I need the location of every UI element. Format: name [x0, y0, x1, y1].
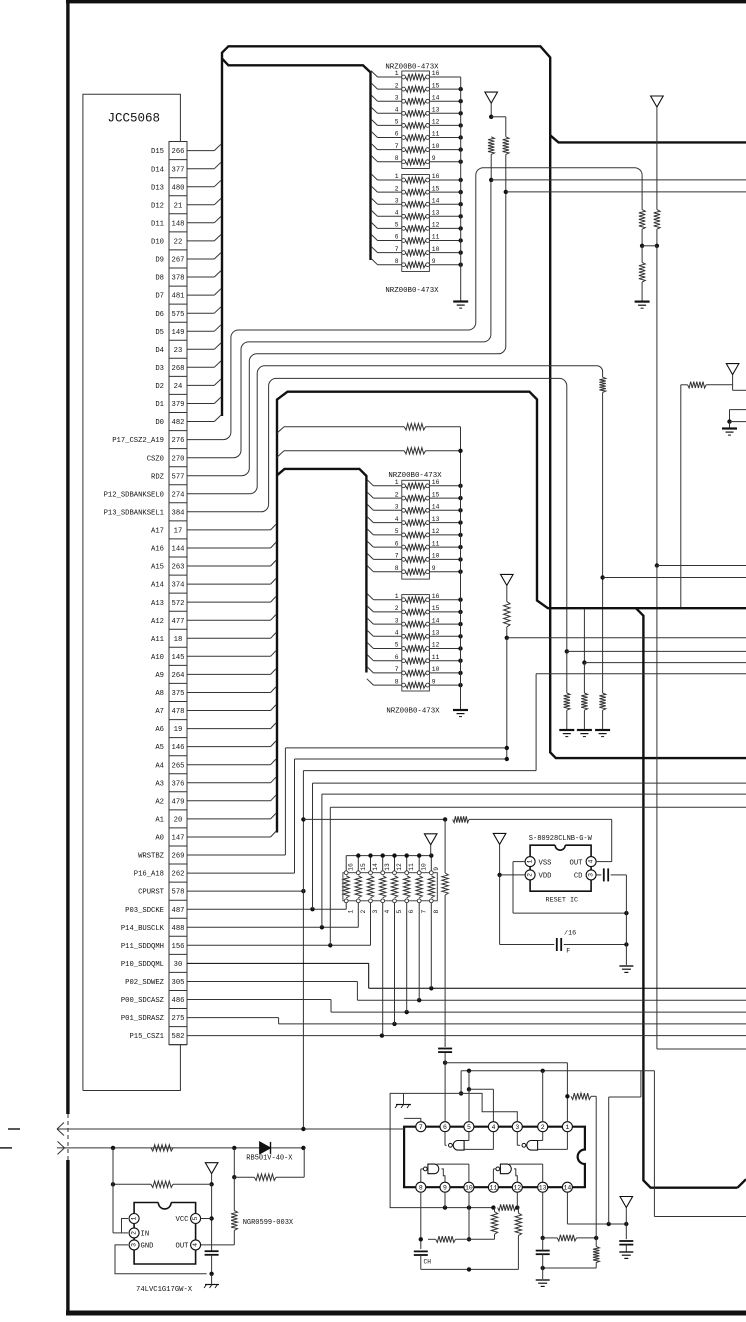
svg-text:16: 16 — [432, 593, 440, 600]
svg-text:1: 1 — [395, 593, 399, 600]
svg-text:D0: D0 — [155, 419, 164, 427]
svg-text:4: 4 — [395, 516, 399, 523]
svg-text:12: 12 — [432, 642, 440, 649]
svg-text:NRZ00B0-473X: NRZ00B0-473X — [385, 64, 439, 72]
svg-text:JCC5068: JCC5068 — [108, 112, 161, 126]
svg-text:269: 269 — [172, 853, 185, 861]
svg-text:14: 14 — [372, 863, 379, 871]
svg-text:2: 2 — [527, 873, 534, 877]
svg-text:265: 265 — [172, 762, 185, 770]
svg-text:14: 14 — [432, 197, 440, 204]
svg-text:NRZ00B0-473X: NRZ00B0-473X — [386, 707, 440, 715]
svg-text:4: 4 — [588, 860, 595, 864]
svg-text:D8: D8 — [155, 275, 164, 283]
svg-text:1: 1 — [348, 910, 355, 914]
svg-text:D9: D9 — [155, 257, 164, 265]
svg-text:6: 6 — [395, 540, 399, 547]
svg-text:/16: /16 — [564, 930, 576, 938]
svg-text:D2: D2 — [155, 383, 164, 391]
svg-text:4: 4 — [491, 1124, 495, 1131]
svg-text:477: 477 — [172, 618, 185, 626]
svg-text:146: 146 — [172, 744, 185, 752]
svg-text:5: 5 — [395, 119, 399, 126]
svg-text:488: 488 — [172, 925, 185, 933]
svg-text:RESET IC: RESET IC — [546, 897, 579, 905]
svg-text:13: 13 — [384, 863, 391, 871]
svg-text:147: 147 — [172, 835, 185, 843]
svg-text:5: 5 — [467, 1124, 471, 1131]
svg-text:VDD: VDD — [539, 873, 552, 881]
svg-text:276: 276 — [172, 437, 185, 445]
svg-text:7: 7 — [395, 143, 399, 150]
svg-text:13: 13 — [432, 210, 440, 217]
svg-text:D13: D13 — [151, 184, 164, 192]
svg-text:22: 22 — [174, 239, 183, 247]
svg-text:D5: D5 — [155, 329, 164, 337]
svg-text:8: 8 — [395, 678, 399, 685]
svg-text:478: 478 — [172, 708, 185, 716]
svg-text:3: 3 — [395, 617, 399, 624]
svg-text:11: 11 — [432, 654, 440, 661]
svg-text:11: 11 — [432, 234, 440, 241]
svg-text:S-80928CLNB-G-W: S-80928CLNB-G-W — [529, 835, 593, 843]
svg-text:7: 7 — [395, 666, 399, 673]
svg-text:379: 379 — [172, 401, 185, 409]
svg-text:D3: D3 — [155, 365, 164, 373]
svg-text:1: 1 — [565, 1124, 569, 1131]
svg-text:10: 10 — [465, 1184, 473, 1191]
svg-text:13: 13 — [539, 1184, 547, 1191]
svg-text:8: 8 — [395, 565, 399, 572]
svg-text:572: 572 — [172, 600, 185, 608]
svg-text:2: 2 — [395, 491, 399, 498]
svg-text:A9: A9 — [155, 672, 164, 680]
svg-text:D11: D11 — [151, 220, 164, 228]
svg-text:CD: CD — [574, 873, 583, 881]
svg-text:275: 275 — [172, 1015, 185, 1023]
svg-text:7: 7 — [395, 553, 399, 560]
svg-text:3: 3 — [395, 94, 399, 101]
svg-text:12: 12 — [432, 222, 440, 229]
svg-text:14: 14 — [432, 617, 440, 624]
svg-text:P01_SDRASZ: P01_SDRASZ — [121, 1015, 165, 1023]
svg-text:262: 262 — [172, 871, 185, 879]
svg-text:15: 15 — [432, 605, 440, 612]
svg-text:15: 15 — [360, 863, 367, 871]
svg-text:7: 7 — [419, 1124, 423, 1131]
svg-text:P02_SDWEZ: P02_SDWEZ — [125, 979, 165, 987]
svg-text:1: 1 — [395, 173, 399, 180]
svg-text:A6: A6 — [155, 726, 164, 734]
svg-text:2: 2 — [131, 1231, 138, 1235]
svg-text:A5: A5 — [155, 744, 164, 752]
svg-text:8: 8 — [433, 910, 440, 914]
svg-text:13: 13 — [432, 630, 440, 637]
svg-text:OUT: OUT — [176, 1243, 190, 1251]
svg-text:VSS: VSS — [539, 859, 552, 867]
svg-text:12: 12 — [432, 119, 440, 126]
svg-text:18: 18 — [174, 636, 183, 644]
svg-text:11: 11 — [408, 863, 415, 871]
svg-text:4: 4 — [395, 630, 399, 637]
svg-text:6: 6 — [408, 910, 415, 914]
svg-text:375: 375 — [172, 690, 185, 698]
svg-text:8: 8 — [395, 155, 399, 162]
svg-text:IN: IN — [141, 1231, 150, 1239]
svg-text:74LVC1G17GW-X: 74LVC1G17GW-X — [136, 1286, 193, 1294]
svg-text:577: 577 — [172, 473, 185, 481]
svg-text:270: 270 — [172, 455, 185, 463]
svg-text:578: 578 — [172, 889, 185, 897]
svg-text:480: 480 — [172, 184, 185, 192]
svg-text:14: 14 — [432, 504, 440, 511]
svg-text:10: 10 — [432, 246, 440, 253]
svg-text:P15_CSZ1: P15_CSZ1 — [129, 1033, 164, 1041]
svg-text:9: 9 — [433, 867, 440, 871]
svg-text:NGR0599-003X: NGR0599-003X — [243, 1219, 294, 1227]
svg-text:8: 8 — [395, 258, 399, 265]
svg-text:12: 12 — [396, 863, 403, 871]
svg-text:13: 13 — [432, 516, 440, 523]
svg-text:582: 582 — [172, 1033, 185, 1041]
svg-text:A11: A11 — [151, 636, 164, 644]
svg-text:10: 10 — [432, 666, 440, 673]
svg-text:4: 4 — [395, 210, 399, 217]
svg-text:1: 1 — [527, 860, 534, 864]
svg-text:D7: D7 — [155, 293, 164, 301]
svg-text:16: 16 — [348, 863, 355, 871]
svg-text:P10_SDDQML: P10_SDDQML — [121, 961, 164, 969]
svg-text:A8: A8 — [155, 690, 164, 698]
svg-text:CH: CH — [424, 1259, 432, 1266]
svg-text:RB501V-40-X: RB501V-40-X — [246, 1155, 293, 1163]
svg-text:2: 2 — [395, 605, 399, 612]
svg-text:10: 10 — [432, 143, 440, 150]
svg-text:P03_SDCKE: P03_SDCKE — [125, 907, 164, 915]
svg-text:9: 9 — [432, 565, 436, 572]
svg-text:305: 305 — [172, 979, 185, 987]
svg-text:11: 11 — [432, 540, 440, 547]
svg-text:479: 479 — [172, 798, 185, 806]
svg-text:A0: A0 — [155, 835, 164, 843]
svg-text:A14: A14 — [151, 582, 164, 590]
svg-text:A10: A10 — [151, 654, 164, 662]
svg-text:2: 2 — [395, 82, 399, 89]
svg-text:A15: A15 — [151, 564, 164, 572]
svg-text:D1: D1 — [155, 401, 164, 409]
svg-text:VCC: VCC — [176, 1216, 190, 1224]
svg-text:7: 7 — [395, 246, 399, 253]
svg-text:A12: A12 — [151, 618, 164, 626]
svg-text:4: 4 — [192, 1243, 199, 1247]
svg-text:30: 30 — [174, 961, 183, 969]
svg-text:2: 2 — [541, 1124, 545, 1131]
svg-text:11: 11 — [432, 131, 440, 138]
svg-text:D15: D15 — [151, 148, 164, 156]
svg-text:A1: A1 — [155, 817, 164, 825]
svg-text:P00_SDCASZ: P00_SDCASZ — [121, 997, 165, 1005]
svg-text:P11_SDDQMH: P11_SDDQMH — [121, 943, 164, 951]
svg-text:12: 12 — [432, 528, 440, 535]
svg-text:4: 4 — [395, 107, 399, 114]
svg-text:486: 486 — [172, 997, 185, 1005]
svg-text:263: 263 — [172, 564, 185, 572]
svg-text:A3: A3 — [155, 780, 164, 788]
svg-text:9: 9 — [432, 155, 436, 162]
svg-text:CSZ0: CSZ0 — [147, 455, 164, 463]
svg-text:149: 149 — [172, 329, 185, 337]
svg-text:9: 9 — [432, 678, 436, 685]
svg-text:GND: GND — [141, 1243, 154, 1251]
svg-text:3: 3 — [588, 873, 595, 877]
svg-text:D14: D14 — [151, 166, 164, 174]
svg-text:6: 6 — [395, 234, 399, 241]
svg-text:23: 23 — [174, 347, 183, 355]
svg-text:3: 3 — [372, 910, 379, 914]
svg-text:482: 482 — [172, 419, 185, 427]
svg-text:268: 268 — [172, 365, 185, 373]
svg-text:A13: A13 — [151, 600, 164, 608]
svg-text:156: 156 — [172, 943, 185, 951]
svg-text:3: 3 — [131, 1243, 138, 1247]
svg-text:NRZ00B0-473X: NRZ00B0-473X — [388, 472, 442, 480]
svg-text:274: 274 — [172, 491, 185, 499]
svg-text:19: 19 — [174, 726, 183, 734]
svg-text:5: 5 — [192, 1216, 199, 1220]
svg-text:21: 21 — [174, 202, 183, 210]
svg-text:15: 15 — [432, 82, 440, 89]
svg-text:A2: A2 — [155, 798, 164, 806]
svg-text:RDZ: RDZ — [151, 473, 165, 481]
svg-text:14: 14 — [432, 94, 440, 101]
svg-text:575: 575 — [172, 311, 185, 319]
svg-text:2: 2 — [395, 185, 399, 192]
svg-text:P17_CSZ2_A19: P17_CSZ2_A19 — [112, 437, 164, 445]
svg-text:A16: A16 — [151, 546, 164, 554]
svg-text:A7: A7 — [155, 708, 164, 716]
svg-text:P13_SDBANKSEL1: P13_SDBANKSEL1 — [104, 509, 164, 517]
svg-text:4: 4 — [384, 910, 391, 914]
svg-text:384: 384 — [172, 509, 185, 517]
svg-text:8: 8 — [419, 1184, 423, 1191]
svg-text:D6: D6 — [155, 311, 164, 319]
svg-text:3: 3 — [395, 504, 399, 511]
svg-text:481: 481 — [172, 293, 185, 301]
svg-text:267: 267 — [172, 257, 185, 265]
svg-text:6: 6 — [443, 1124, 447, 1131]
svg-text:1: 1 — [131, 1216, 138, 1220]
svg-text:15: 15 — [432, 491, 440, 498]
svg-text:14: 14 — [563, 1184, 571, 1191]
svg-text:A4: A4 — [155, 762, 164, 770]
svg-text:16: 16 — [432, 173, 440, 180]
svg-text:12: 12 — [513, 1184, 521, 1191]
svg-text:5: 5 — [396, 910, 403, 914]
svg-text:378: 378 — [172, 275, 185, 283]
svg-text:OUT: OUT — [570, 859, 584, 867]
svg-text:2: 2 — [360, 910, 367, 914]
svg-text:D4: D4 — [155, 347, 164, 355]
svg-text:5: 5 — [395, 642, 399, 649]
svg-text:7: 7 — [421, 910, 428, 914]
svg-text:F: F — [566, 948, 570, 956]
svg-text:P16_A18: P16_A18 — [134, 871, 164, 879]
svg-text:9: 9 — [432, 258, 436, 265]
svg-text:9: 9 — [443, 1184, 447, 1191]
svg-text:374: 374 — [172, 582, 185, 590]
svg-text:487: 487 — [172, 907, 185, 915]
svg-text:15: 15 — [432, 185, 440, 192]
svg-text:10: 10 — [421, 863, 428, 871]
svg-text:13: 13 — [432, 107, 440, 114]
svg-text:CPURST: CPURST — [138, 889, 165, 897]
svg-text:3: 3 — [395, 197, 399, 204]
svg-text:264: 264 — [172, 672, 185, 680]
svg-text:11: 11 — [489, 1184, 497, 1191]
svg-text:266: 266 — [172, 148, 185, 156]
svg-text:D10: D10 — [151, 239, 164, 247]
svg-text:P14_BUSCLK: P14_BUSCLK — [121, 925, 165, 933]
svg-text:144: 144 — [172, 546, 185, 554]
svg-text:P12_SDBANKSEL0: P12_SDBANKSEL0 — [104, 491, 164, 499]
svg-text:376: 376 — [172, 780, 185, 788]
svg-text:20: 20 — [174, 817, 183, 825]
svg-text:145: 145 — [172, 654, 185, 662]
svg-text:WRSTBZ: WRSTBZ — [138, 853, 165, 861]
svg-text:NRZ00B0-473X: NRZ00B0-473X — [385, 287, 439, 295]
svg-text:6: 6 — [395, 131, 399, 138]
svg-text:148: 148 — [172, 220, 185, 228]
svg-text:D12: D12 — [151, 202, 164, 210]
svg-text:377: 377 — [172, 166, 185, 174]
svg-text:24: 24 — [174, 383, 183, 391]
svg-text:5: 5 — [395, 528, 399, 535]
svg-text:17: 17 — [174, 528, 183, 536]
svg-text:6: 6 — [395, 654, 399, 661]
svg-text:10: 10 — [432, 553, 440, 560]
svg-text:5: 5 — [395, 222, 399, 229]
svg-text:3: 3 — [515, 1124, 519, 1131]
svg-text:A17: A17 — [151, 528, 164, 536]
